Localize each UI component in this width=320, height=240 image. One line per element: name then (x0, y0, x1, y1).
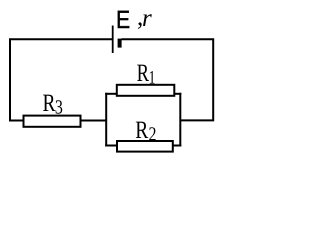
svg-text:1: 1 (149, 67, 156, 88)
svg-text:r: r (142, 5, 152, 32)
svg-text:R: R (135, 117, 148, 144)
svg-text:2: 2 (149, 123, 157, 145)
svg-text:E: E (116, 6, 130, 34)
svg-text:R: R (137, 60, 150, 87)
svg-text:3: 3 (55, 96, 63, 118)
svg-text:R: R (43, 90, 56, 117)
